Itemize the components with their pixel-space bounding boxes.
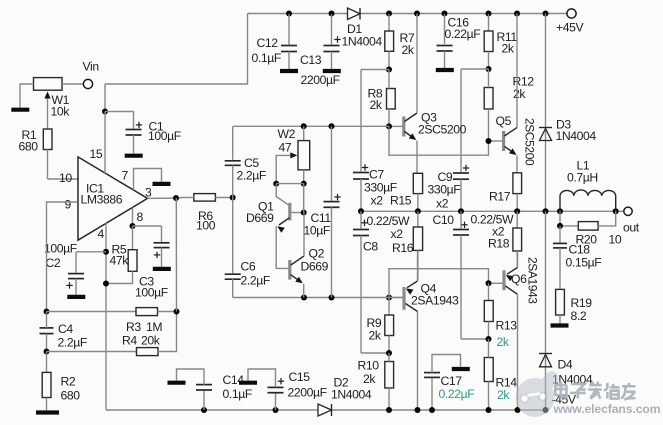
transistor Q5: [489, 114, 537, 166]
svg-text:2.2µF: 2.2µF: [241, 274, 270, 288]
wire pin9 to feedback node: [44, 202, 78, 315]
pin 3 label: [145, 186, 152, 200]
wire Q6 emitter to R18: [517, 251, 519, 268]
terminal +45V: [556, 9, 584, 35]
resistor R11: [484, 14, 517, 69]
svg-text:680: 680: [19, 140, 39, 154]
svg-text:x2: x2: [371, 194, 384, 208]
svg-text:8.2: 8.2: [571, 309, 587, 323]
svg-text:Q2: Q2: [309, 247, 325, 261]
resistor R18: [471, 211, 522, 267]
svg-text:3: 3: [145, 186, 152, 200]
inductor L1: [560, 159, 616, 212]
node pin8: [130, 223, 162, 229]
svg-text:C17: C17: [441, 374, 463, 388]
resistor R14: [484, 339, 517, 410]
svg-text:100µF: 100µF: [148, 129, 181, 143]
wire Q2 collector: [303, 213, 305, 257]
wire upper bias rail: [233, 123, 389, 129]
resistor R13: [484, 283, 517, 349]
capacitor C12: [252, 14, 299, 71]
terminal Vin: [62, 60, 99, 89]
svg-text:0.22/5W: 0.22/5W: [367, 214, 410, 228]
svg-text:x2: x2: [391, 227, 404, 241]
wire Q4 collector to rail: [417, 312, 419, 411]
svg-text:2k: 2k: [370, 98, 383, 112]
ground for R2: [36, 410, 59, 414]
svg-text:0.22µF: 0.22µF: [439, 387, 475, 401]
diode D2: [318, 376, 372, 417]
svg-text:D4: D4: [558, 358, 573, 372]
node drive: [230, 195, 236, 201]
label -45V: [552, 393, 577, 407]
resistor R2: [42, 352, 80, 411]
svg-text:R2: R2: [61, 375, 76, 389]
svg-text:2k: 2k: [402, 43, 415, 57]
capacitor C4: [40, 312, 87, 352]
svg-text:0.15µF: 0.15µF: [566, 256, 602, 270]
diode D3: [539, 14, 596, 212]
svg-text:R10: R10: [358, 359, 380, 373]
svg-text:R3: R3: [126, 320, 141, 334]
potentiometer W2: [278, 126, 310, 183]
svg-text:2.2µF: 2.2µF: [58, 336, 87, 350]
svg-text:1M: 1M: [146, 320, 162, 334]
resistor R4: [47, 312, 177, 356]
resistor R6: [181, 194, 233, 233]
resistor R3: [47, 308, 177, 334]
wire Q5 collector to rail: [516, 14, 518, 128]
svg-text:C13: C13: [300, 53, 322, 67]
resistor R9: [367, 298, 394, 354]
pin 7 to ground: [122, 169, 162, 191]
svg-text:R15: R15: [390, 194, 412, 208]
capacitor C16: [436, 14, 480, 70]
resistor R7: [385, 14, 415, 70]
svg-text:100: 100: [196, 219, 216, 233]
svg-text:2200µF: 2200µF: [301, 73, 340, 87]
svg-text:C7: C7: [369, 168, 384, 182]
resistor R15: [390, 173, 423, 211]
diode D4: [539, 211, 593, 410]
transistor Q2: [276, 226, 328, 283]
svg-text:W2: W2: [278, 127, 296, 141]
node Q3 base: [386, 123, 392, 129]
svg-text:+45V: +45V: [556, 21, 584, 35]
svg-text:C18: C18: [569, 243, 591, 257]
node Q1 base: [301, 184, 307, 216]
transistor Q4: [389, 281, 459, 312]
svg-text:330µF: 330µF: [428, 183, 461, 197]
svg-text:7: 7: [122, 169, 129, 183]
svg-text:2k: 2k: [363, 372, 376, 386]
svg-text:C6: C6: [241, 260, 256, 274]
svg-text:LM3886: LM3886: [81, 193, 123, 207]
svg-text:2k: 2k: [502, 42, 515, 56]
watermark url www.elecfans.com: [553, 402, 661, 416]
svg-text:2SA1943: 2SA1943: [526, 257, 540, 304]
pin 4: [98, 223, 107, 410]
svg-text:15: 15: [90, 147, 103, 161]
svg-text:D669: D669: [301, 260, 329, 274]
svg-text:680: 680: [61, 389, 81, 403]
resistor R8: [368, 70, 396, 127]
svg-text:10: 10: [59, 171, 72, 185]
svg-text:0.7µH: 0.7µH: [567, 171, 598, 185]
svg-text:C8: C8: [363, 240, 378, 254]
capacitor C1: [105, 112, 181, 156]
svg-text:C14: C14: [223, 373, 245, 387]
svg-text:2SA1943: 2SA1943: [411, 294, 459, 308]
node Q5 base: [486, 138, 492, 144]
node Q6 base: [486, 280, 492, 286]
svg-text:0.1µF: 0.1µF: [223, 387, 252, 401]
wire R1 to pin10: [48, 178, 78, 180]
svg-text:4: 4: [98, 227, 105, 241]
node feedback B: [44, 349, 50, 355]
wire output rail: [358, 208, 623, 214]
capacitor C13: [300, 14, 341, 87]
diode D1: [342, 8, 383, 49]
capacitor C6: [225, 198, 270, 298]
capacitor C15: [239, 369, 327, 410]
svg-text:2SC5200: 2SC5200: [418, 123, 467, 137]
resistor R17: [489, 173, 522, 212]
node IC output: [148, 195, 181, 312]
wire Q3 collector to rail: [416, 14, 418, 113]
pin 8: [133, 207, 144, 226]
resistor R1: [19, 128, 53, 179]
wire Q3 emitter to R15: [416, 141, 418, 174]
ground for R19: [551, 323, 569, 327]
svg-text:R4: R4: [122, 334, 137, 348]
wire Q4/Q6 base tie: [389, 269, 489, 298]
op-amp IC1 LM3886 triangle: [78, 157, 148, 240]
svg-text:47: 47: [279, 141, 292, 155]
svg-text:R13: R13: [496, 319, 518, 333]
svg-text:D669: D669: [246, 211, 274, 225]
svg-text:47k: 47k: [110, 254, 130, 268]
svg-text:out: out: [623, 221, 640, 235]
ground for W1: [11, 108, 29, 112]
svg-text:1N4004: 1N4004: [556, 129, 597, 143]
node R11/R12 junction: [461, 66, 492, 72]
resistor R16: [367, 211, 423, 280]
transistor Q6: [489, 257, 540, 304]
resistor R20: [557, 211, 622, 246]
svg-text:Q5: Q5: [496, 114, 512, 128]
capacitor C11: [304, 126, 341, 297]
svg-text:20k: 20k: [141, 334, 161, 348]
resistor R10: [358, 353, 394, 410]
wire Q2 emitter: [303, 284, 305, 298]
node Q4 base: [386, 295, 392, 301]
wire Q6 collector to rail: [517, 294, 519, 410]
resistor R19: [556, 289, 593, 323]
capacitor C5: [225, 126, 266, 197]
wire lower bias rail: [233, 295, 403, 301]
capacitor C10 bootstrap: [433, 211, 489, 339]
svg-text:C12: C12: [257, 36, 279, 50]
potentiometer W1: [20, 78, 70, 129]
svg-text:330µF: 330µF: [364, 181, 397, 195]
svg-text:R16: R16: [392, 241, 414, 255]
wire -45V bottom rail: [106, 407, 549, 413]
svg-text:100µF: 100µF: [44, 242, 77, 256]
wire Q5 emitter to R17: [516, 156, 518, 173]
svg-text:2k: 2k: [369, 329, 382, 343]
svg-text:9: 9: [65, 198, 72, 212]
resistor R12: [484, 69, 534, 141]
node R3/R4 feedback: [174, 309, 180, 315]
svg-text:C15: C15: [289, 370, 311, 384]
pin 15: [90, 112, 106, 174]
transistor Q3: [389, 111, 467, 141]
svg-text:0.1µF: 0.1µF: [252, 51, 281, 65]
watermark text 电子发烧友: [555, 382, 635, 400]
capacitor C17: [424, 355, 474, 411]
capacitor C18: [553, 226, 601, 290]
capacitor C3: [135, 226, 171, 300]
wiper W2: [273, 152, 307, 186]
transistor Q1: [246, 184, 304, 233]
node R7/R8 junction: [361, 67, 392, 73]
svg-text:x2: x2: [436, 197, 449, 211]
svg-text:2200µF: 2200µF: [288, 386, 327, 400]
svg-text:10: 10: [609, 233, 622, 247]
svg-text:Q6: Q6: [511, 272, 527, 286]
svg-text:R18: R18: [488, 237, 510, 251]
svg-text:2k: 2k: [497, 388, 510, 402]
svg-text:2k: 2k: [513, 87, 526, 101]
pin 9: [65, 198, 72, 212]
svg-text:R17: R17: [489, 190, 511, 204]
svg-text:2k: 2k: [497, 335, 510, 349]
wire top rail to V+ node: [102, 14, 248, 115]
capacitor C9 bootstrap: [428, 69, 470, 211]
svg-text:C4: C4: [58, 322, 73, 336]
svg-text:C2: C2: [46, 256, 61, 270]
svg-text:R19: R19: [571, 296, 593, 310]
svg-text:8: 8: [137, 210, 144, 224]
svg-text:10k: 10k: [51, 105, 71, 119]
capacitor C2: [44, 242, 106, 297]
node V- decouple: [103, 249, 109, 255]
capacitor C8 bootstrap: [353, 211, 389, 353]
svg-text:1N4004: 1N4004: [342, 35, 383, 49]
wire Q4 emitter to R16: [417, 250, 419, 281]
capacitor C7 bootstrap: [353, 70, 397, 212]
svg-text:2.2µF: 2.2µF: [237, 169, 266, 183]
watermark logo: [516, 368, 562, 417]
wire +45V top rail: [248, 11, 568, 17]
svg-text:www.elecfans.com: www.elecfans.com: [553, 402, 661, 416]
svg-text:100µF: 100µF: [135, 286, 168, 300]
terminal out: [623, 207, 640, 234]
ground for pin 7: [153, 182, 171, 186]
node R13/R14 junction: [486, 336, 492, 342]
node R9/R10 junction: [386, 350, 392, 356]
wire Q3/Q5 base tie: [389, 126, 489, 155]
svg-text:1N4004: 1N4004: [331, 388, 372, 402]
pin 10: [59, 171, 72, 185]
svg-text:0.22µF: 0.22µF: [445, 27, 481, 41]
svg-text:Vin: Vin: [83, 60, 99, 74]
svg-text:2SC5200: 2SC5200: [523, 118, 537, 166]
svg-text:10µF: 10µF: [304, 224, 330, 238]
resistor R5: [103, 226, 137, 287]
svg-text:C10: C10: [433, 213, 455, 227]
capacitor C14: [168, 369, 252, 410]
